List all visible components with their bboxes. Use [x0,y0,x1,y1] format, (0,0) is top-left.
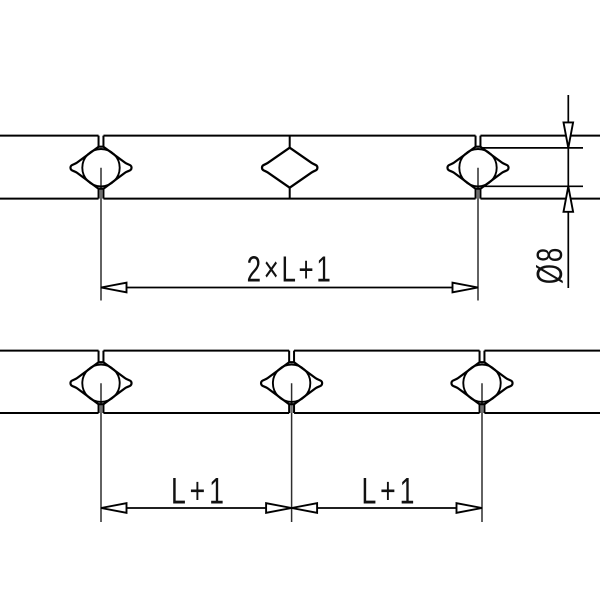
ball (x=291.6) [273,365,310,402]
ball (x=482) [463,365,500,402]
ball (x=478) [459,149,496,186]
extension line ball bottom tangent [482,185,583,187]
dim arrow up [564,186,574,212]
hidden-ball grey fill in bottom seam (x=478) [477,188,479,199]
empty pocket diamond (x=289.7) [262,148,317,188]
bottom band upper edge [0,350,600,352]
centerline right ball top band [477,168,479,301]
dim arrow down [564,122,574,147]
seam line (x=289.7) [289,136,291,199]
bottom dim left arrow [101,503,127,513]
pocket diamond (x=482) [451,362,512,404]
svg-text:L+1: L+1 [361,470,418,511]
pocket diamond (x=478) [447,147,508,189]
ball (x=101) [82,365,119,402]
seam lines (x=101) [99,351,104,413]
svg-text:2×L+1: 2×L+1 [247,249,334,289]
svg-text:Ø8: Ø8 [530,246,570,284]
seam lines (x=478) [476,136,481,199]
seam lines (x=291.6) [289,351,294,413]
hidden-ball grey fill in bottom seam (x=101) [100,188,102,199]
seam lines (x=101) [99,136,104,199]
top dim left arrow [101,283,127,293]
svg-text:L+1: L+1 [171,470,228,511]
top band lower edge [0,198,600,200]
centerline left ball top band [100,168,102,301]
centerline ball bottom band (x=291.6) [291,383,293,522]
hidden-ball grey fill in bottom seam (x=291.6) [290,403,292,413]
extension line ball top tangent [481,147,583,149]
hidden-ball grey fill in bottom seam (x=101) [100,403,102,413]
seam lines (x=482) [480,351,485,413]
pocket diamond (x=291.6) [261,362,322,404]
bottom band lower edge [0,412,600,414]
bottom dim middle arrow pointing right [266,503,292,513]
centerline ball bottom band (x=101) [100,383,102,522]
vertical dimension line [567,95,569,288]
ball (x=101) [82,149,119,186]
pocket diamond (x=101) [70,362,131,404]
bottom dim right arrow [457,503,483,513]
bottom dimension line [101,507,482,509]
top band upper edge [0,135,600,137]
hidden-ball grey fill in bottom seam (x=482) [481,403,483,413]
top dim right arrow [453,283,479,293]
pocket diamond (x=101) [70,147,131,189]
bottom dim middle arrow pointing left [292,503,318,513]
top dimension line [101,287,478,289]
centerline ball bottom band (x=482) [481,383,483,522]
